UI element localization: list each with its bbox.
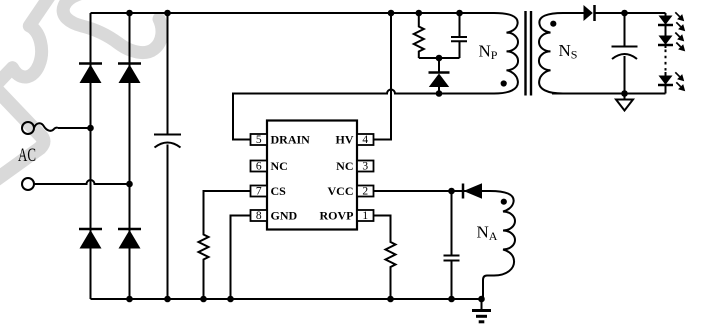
svg-text:4: 4 bbox=[362, 134, 368, 146]
watermark bbox=[0, 0, 162, 179]
diode D1 bridge upper-left bbox=[79, 64, 102, 84]
ground GND2 secondary (open triangle) bbox=[624, 94, 626, 100]
junction bottom rail / bulk cap bbox=[164, 296, 171, 303]
wire top rail bbox=[91, 12, 495, 14]
diode D3 bridge lower-left bbox=[79, 229, 102, 249]
diode D5 snubber triangle bbox=[429, 73, 450, 88]
pin 6 box bbox=[251, 161, 268, 172]
AC terminal bottom bbox=[22, 178, 34, 190]
capacitor C3 output bbox=[612, 13, 638, 94]
svg-text:5: 5 bbox=[256, 134, 262, 146]
pin 3 box bbox=[357, 161, 374, 172]
junction secondary bottom / cap-ground bbox=[621, 90, 628, 97]
junction bottom rail / right branch bbox=[126, 296, 133, 303]
svg-text:ROVP: ROVP bbox=[320, 209, 354, 223]
phase dot secondary bbox=[550, 21, 556, 27]
wire secondary top bbox=[563, 12, 584, 14]
junction secondary top / cap bbox=[621, 10, 628, 17]
wire secondary bottom bbox=[552, 93, 666, 95]
junction top rail / right branch bbox=[126, 10, 133, 17]
pin 2 box bbox=[357, 186, 374, 197]
transformer primary winding NP bbox=[494, 13, 518, 94]
svg-text:VCC: VCC bbox=[328, 184, 354, 198]
wire VCC: pin2 to aux diode bbox=[374, 190, 491, 192]
resistor R1 CS bbox=[199, 191, 251, 299]
IC U1 body bbox=[267, 121, 357, 230]
LED3 bbox=[658, 72, 685, 91]
wire snubber node bbox=[419, 57, 460, 59]
junction drain rail / snubber diode bbox=[436, 90, 443, 97]
junction bottom rail / GND wire bbox=[227, 296, 234, 303]
LED string column bbox=[665, 13, 667, 48]
pin 7 box bbox=[251, 186, 268, 197]
wire AC top line bbox=[58, 127, 91, 129]
wire AC bottom line with hop over left branch bbox=[34, 180, 130, 184]
wire left bridge branch bbox=[90, 13, 92, 299]
pin 5 box bbox=[251, 134, 268, 145]
svg-text:7: 7 bbox=[256, 186, 262, 198]
fuse bbox=[34, 123, 58, 131]
svg-text:GND: GND bbox=[271, 209, 298, 223]
junction bottom rail / VCC cap bbox=[448, 296, 455, 303]
svg-text:AC: AC bbox=[18, 144, 36, 165]
junction bottom rail / earth ground bbox=[478, 296, 485, 303]
transformer auxiliary winding NA bbox=[483, 191, 515, 299]
LED1 bbox=[658, 12, 685, 31]
svg-text:3: 3 bbox=[362, 161, 368, 173]
diode D7 aux triangle bbox=[464, 183, 483, 198]
junction top rail / HV bbox=[388, 10, 395, 17]
svg-text:HV: HV bbox=[336, 133, 354, 147]
resistor R3 ROVP bbox=[374, 216, 396, 300]
capacitor C2 snubber bbox=[451, 13, 467, 58]
svg-text:NC: NC bbox=[336, 159, 353, 173]
svg-text:1: 1 bbox=[362, 210, 368, 222]
junction top rail / bulk cap bbox=[164, 10, 171, 17]
junction AC bottom / right branch bbox=[126, 181, 133, 188]
diode D7 aux cathode bar bbox=[462, 184, 465, 199]
wire HV: pin4 to top rail bbox=[374, 13, 392, 140]
wire GND pin8 bbox=[231, 216, 251, 300]
svg-text:DRAIN: DRAIN bbox=[271, 133, 311, 147]
diode D2 bridge upper-right bbox=[118, 64, 141, 84]
diode D4 bridge lower-right bbox=[118, 229, 141, 249]
svg-text:NC: NC bbox=[271, 159, 288, 173]
phase dot auxiliary bbox=[501, 199, 507, 205]
diode D6 output cathode bar bbox=[593, 5, 596, 21]
diode D5 snubber stubs bbox=[438, 58, 440, 94]
svg-text:2: 2 bbox=[362, 186, 368, 198]
ground GND1 primary earth bbox=[481, 299, 483, 311]
AC terminal top bbox=[22, 122, 34, 134]
pin 1 box bbox=[357, 210, 374, 221]
diode D6 output triangle bbox=[584, 5, 593, 21]
svg-text:6: 6 bbox=[256, 161, 262, 173]
wire drain: pin5 to primary bottom with hop over HV line bbox=[233, 90, 494, 140]
junction snubber node / diode bbox=[436, 55, 443, 62]
svg-text:8: 8 bbox=[256, 210, 262, 222]
LED2 bbox=[658, 33, 685, 52]
junction top rail / snubber R bbox=[416, 10, 423, 17]
svg-text:CS: CS bbox=[271, 184, 287, 198]
junction top rail / snubber C bbox=[456, 10, 463, 17]
phase dot primary bbox=[501, 80, 507, 86]
dotted wire between LEDs bbox=[665, 50, 667, 71]
transformer secondary winding NS bbox=[539, 13, 563, 94]
wire bottom rail bbox=[91, 298, 482, 300]
junction VCC / cap bbox=[448, 188, 455, 195]
resistor R2 snubber bbox=[414, 13, 424, 58]
wire right bridge branch bbox=[129, 13, 131, 299]
junction bottom rail / CS resistor bbox=[200, 296, 207, 303]
wire secondary diode to LEDs bbox=[595, 12, 666, 14]
transformer core bbox=[526, 11, 532, 96]
pin 4 box bbox=[357, 134, 374, 145]
junction bottom rail / ROVP resistor bbox=[387, 296, 394, 303]
junction AC top / left branch bbox=[87, 125, 94, 132]
capacitor C4 VCC bbox=[444, 191, 460, 299]
pin 8 box bbox=[251, 210, 268, 221]
capacitor C1 bulk electrolytic bbox=[154, 13, 181, 299]
